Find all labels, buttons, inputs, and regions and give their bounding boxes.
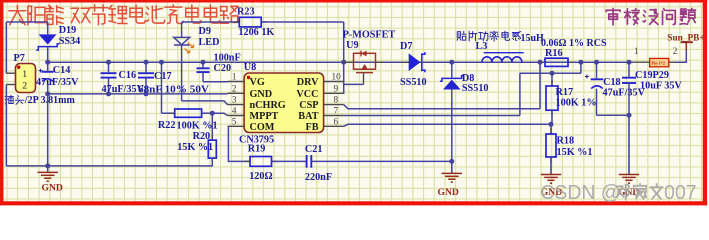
svg-text:R20: R20 <box>193 131 211 142</box>
resistor R23 <box>239 17 261 27</box>
wire VIN rail <box>48 61 634 63</box>
resistor R22 stubs <box>170 112 175 114</box>
capacitor C16 <box>101 72 117 74</box>
wire L3 out <box>522 61 540 63</box>
svg-text:C14: C14 <box>53 65 71 76</box>
node C20 top <box>201 60 206 65</box>
capacitor C20 <box>197 67 210 69</box>
wire bottom-left ground run <box>6 165 213 167</box>
node C16 bottom <box>106 91 111 96</box>
wire R23 right <box>261 21 344 23</box>
node C17 bottom <box>144 91 149 96</box>
wire C16 bottom <box>108 78 110 94</box>
ground GND D8 <box>451 161 453 173</box>
node D8 gnd <box>449 159 454 164</box>
node MPPT junction <box>210 111 215 116</box>
led D9 arrows <box>188 43 194 48</box>
diode D8 triangle <box>443 80 461 90</box>
svg-text:R16: R16 <box>545 48 563 59</box>
svg-text:MPPT: MPPT <box>250 111 279 122</box>
wire C20 top <box>202 62 204 68</box>
node rail-R16-right <box>578 60 583 65</box>
svg-text:DRV: DRV <box>297 77 319 88</box>
wire D8 gnd link <box>451 99 453 161</box>
wire C14 bottom <box>47 81 49 165</box>
svg-text:15K %1: 15K %1 <box>177 142 213 153</box>
node rail-VCC <box>341 60 346 65</box>
svg-text:U9: U9 <box>346 40 358 51</box>
diode D7 triangle <box>409 53 421 71</box>
svg-text:1206 1K: 1206 1K <box>238 27 274 38</box>
wire rail to R22 <box>161 62 163 113</box>
wire C19 bottom <box>628 83 630 115</box>
svg-text:D19: D19 <box>59 25 77 36</box>
node FB junction <box>549 122 554 127</box>
wire C19 top <box>628 62 630 77</box>
svg-text:68nF 10% 50V: 68nF 10% 50V <box>138 85 210 96</box>
node rail-R22 <box>159 60 164 65</box>
svg-text:D9: D9 <box>199 26 211 37</box>
wire VCC vertical <box>343 22 345 94</box>
node C14-gnd-rail <box>45 91 50 96</box>
svg-text:GND: GND <box>438 187 459 198</box>
svg-text:R19: R19 <box>248 144 266 155</box>
svg-text:R22: R22 <box>158 120 176 131</box>
op-amp U8 body <box>244 73 324 133</box>
svg-text:R23: R23 <box>237 6 255 17</box>
U8 right pin stubs <box>324 81 344 83</box>
resistor R22 <box>175 109 202 117</box>
connector P7 pin2 stub <box>6 84 15 86</box>
svg-text:6: 6 <box>334 116 339 126</box>
svg-text:007: 007 <box>664 182 696 204</box>
svg-text:15K %1: 15K %1 <box>557 147 593 158</box>
svg-text:8: 8 <box>334 95 339 105</box>
transistor U9 gate stub <box>363 73 365 85</box>
resistor R19 stubs <box>245 160 250 162</box>
annotation text 审核没问题 <box>606 9 620 25</box>
capacitor C18 <box>591 78 604 80</box>
wire R17 top <box>551 73 553 86</box>
svg-text:C21: C21 <box>305 144 323 155</box>
capacitor C17 <box>138 72 154 74</box>
svg-text:5: 5 <box>232 116 237 126</box>
svg-text:L3: L3 <box>476 41 488 52</box>
svg-text:1: 1 <box>22 69 27 80</box>
wire P29 pin2 to port <box>675 51 686 63</box>
inductor L3 coil <box>482 57 522 62</box>
svg-text:100nF: 100nF <box>214 52 241 63</box>
led D9 triangle <box>174 37 190 44</box>
wire R19 to C21 <box>272 160 307 162</box>
red sheet border frame <box>0 0 3 205</box>
svg-text:FB: FB <box>305 122 318 133</box>
svg-text:VCC: VCC <box>296 89 318 100</box>
wire BAT top link <box>520 72 581 74</box>
svg-text:R18: R18 <box>557 135 575 146</box>
diode D7 schottky bar <box>422 52 425 72</box>
wire P7 pin2 down <box>5 85 7 166</box>
connector P29 body <box>650 58 669 66</box>
wire BAT up <box>519 73 521 115</box>
svg-text:220nF: 220nF <box>305 172 332 183</box>
svg-text:C16: C16 <box>119 70 137 81</box>
svg-text:R17: R17 <box>556 87 574 98</box>
wire LED cathode down <box>181 45 183 101</box>
svg-text:100K %1: 100K %1 <box>177 121 218 132</box>
svg-text:U8: U8 <box>244 62 256 73</box>
svg-text:10uF 35V: 10uF 35V <box>640 81 682 92</box>
wire C20 bottom <box>202 72 204 82</box>
node C17 top <box>144 60 149 65</box>
resistor R16 stubs <box>540 61 545 63</box>
wire CSP up <box>539 62 541 109</box>
svg-text:GND: GND <box>250 89 273 100</box>
wire R20 bottom <box>211 158 213 166</box>
connector P29 pin2 stub <box>669 61 676 63</box>
wire C16 top <box>108 62 110 73</box>
resistor R17 <box>546 86 558 110</box>
wire BAT run <box>344 115 520 117</box>
node C16 top <box>106 60 111 65</box>
svg-text:2: 2 <box>673 46 678 56</box>
svg-text:120Ω: 120Ω <box>249 171 272 182</box>
wire D7 to node <box>422 61 452 63</box>
wire COM down <box>228 126 250 161</box>
resistor R20 stubs <box>211 135 213 140</box>
power port Sun_PB+ <box>685 42 687 50</box>
svg-text:SS510: SS510 <box>462 83 489 94</box>
svg-text:BAT: BAT <box>298 111 318 122</box>
svg-text:VG: VG <box>250 77 265 88</box>
wire P7 pin1 up <box>5 22 7 73</box>
svg-text:/2P 3.81mm: /2P 3.81mm <box>24 95 76 106</box>
wire CSP run <box>344 105 540 109</box>
ground GND left <box>47 166 49 173</box>
svg-text:C19P29: C19P29 <box>635 70 669 81</box>
svg-text:C17: C17 <box>154 71 172 82</box>
connector P7 pin1 stub <box>6 72 15 74</box>
svg-text:GND: GND <box>42 183 63 194</box>
node switch <box>449 60 454 65</box>
wire R22 junction to R20 <box>211 113 213 140</box>
wire C14 top <box>47 62 49 72</box>
svg-text:3: 3 <box>232 95 237 105</box>
svg-text:4: 4 <box>232 106 237 116</box>
node gnd-run-left <box>45 163 50 168</box>
svg-text:1: 1 <box>634 46 639 56</box>
ground GND right <box>628 115 630 174</box>
wire node to D8 <box>451 62 453 78</box>
svg-text:1: 1 <box>232 72 237 82</box>
U8 left pin stubs <box>228 81 245 83</box>
node rail-D19 <box>45 60 50 65</box>
wire mosfet to D7 <box>384 61 409 63</box>
resistor R18 <box>546 134 556 157</box>
connector P29 pin1 stub <box>633 61 649 63</box>
watermark CSDN <box>540 182 696 204</box>
resistor R16 <box>545 58 568 66</box>
wire R17 bottom <box>551 110 553 124</box>
connector P7 pin1 mark <box>17 66 20 69</box>
capacitor C14 <box>42 71 54 73</box>
wire R22 right <box>202 112 213 114</box>
ground GND R18 <box>550 157 552 175</box>
transistor U9 body <box>354 53 376 69</box>
resistor R20 <box>208 140 216 158</box>
diode D19 triangle <box>39 34 57 44</box>
wire MPPT to pin4 <box>212 113 227 115</box>
wire nCHRG run <box>182 101 228 105</box>
svg-text:Sun_PB+: Sun_PB+ <box>667 33 704 43</box>
wire top-left horizontal <box>6 21 47 23</box>
resistor R18 stubs <box>550 128 552 134</box>
svg-text:10: 10 <box>332 72 342 82</box>
svg-text:CSDN @: CSDN @ <box>540 182 620 204</box>
wire DRV to gate <box>344 83 364 85</box>
node C19 bottom <box>627 113 632 118</box>
diode D19 schottky bar <box>36 44 59 50</box>
svg-text:P7: P7 <box>14 53 25 64</box>
wire C18 top <box>596 62 598 79</box>
svg-text:D7: D7 <box>400 41 412 52</box>
svg-text:Pin 1*2: Pin 1*2 <box>652 61 665 66</box>
wire LED to R23 <box>182 21 240 23</box>
wire FB run <box>344 124 551 126</box>
wire to D19 anode <box>47 22 49 34</box>
svg-text:2: 2 <box>22 81 27 92</box>
wire C17 bottom <box>145 78 147 94</box>
transistor U9 left stub <box>344 61 354 63</box>
svg-text:SS510: SS510 <box>400 77 427 88</box>
capacitor C19 <box>622 77 636 79</box>
transistor U9 right stub <box>376 61 385 63</box>
node rail-C18 <box>594 60 599 65</box>
resistor R17 stubs <box>551 80 553 86</box>
svg-text:COM: COM <box>250 122 275 133</box>
svg-text:LED: LED <box>199 37 220 48</box>
diode D7 stub <box>402 61 409 63</box>
inductor L3 bar <box>484 52 524 54</box>
svg-text:100K 1%: 100K 1% <box>556 97 597 108</box>
wire R18 top <box>550 124 552 134</box>
svg-text:C20: C20 <box>214 63 232 74</box>
resistor R19 <box>250 157 272 167</box>
wire LED anode <box>181 22 183 37</box>
wire GND rail <box>48 93 228 95</box>
svg-text:9: 9 <box>334 83 339 93</box>
wire D8 down <box>451 90 453 100</box>
svg-text:C18: C18 <box>603 77 621 88</box>
connector P7 body <box>16 64 36 93</box>
resistor R23 stubs <box>234 21 239 23</box>
svg-text:7: 7 <box>334 106 339 116</box>
node rail-C19 <box>627 60 632 65</box>
svg-text:47uF/35V: 47uF/35V <box>36 77 79 88</box>
diode D8 schottky bar <box>440 76 464 81</box>
svg-text:nCHRG: nCHRG <box>250 100 286 111</box>
svg-text:2: 2 <box>232 83 237 93</box>
node R17 top <box>550 71 555 76</box>
capacitor C21 <box>306 155 308 168</box>
wire C17 top <box>145 62 147 73</box>
node rail-R16-left <box>538 60 543 65</box>
U8 pin1 mark <box>247 76 250 79</box>
label 插头/2P 3.81mm <box>5 95 13 104</box>
title text 太阳能 双节锂电池充电电路 <box>9 5 26 25</box>
wire C21 to D8 gnd <box>311 160 452 162</box>
svg-text:SS34: SS34 <box>59 36 81 47</box>
wire C18 bottom <box>596 89 598 116</box>
wire D19 cathode to rail <box>47 47 49 63</box>
svg-text:CSP: CSP <box>299 100 318 111</box>
label 贴片功率电感15uH <box>457 31 466 40</box>
